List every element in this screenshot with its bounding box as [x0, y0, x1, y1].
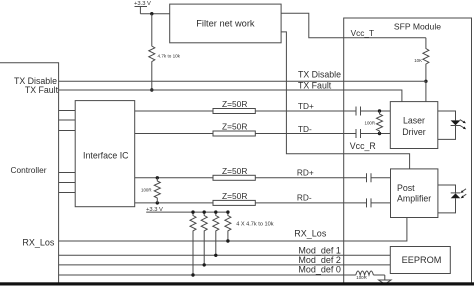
node RD+ / 100R — [156, 176, 159, 179]
resistor 100R (Mod_def0 to ground) — [356, 271, 385, 280]
svg-text:TX Fault: TX Fault — [25, 85, 59, 95]
svg-text:SFP Module: SFP Module — [394, 22, 441, 32]
svg-text:TX Fault: TX Fault — [298, 81, 332, 91]
interface IC box — [75, 101, 135, 207]
wire TD+ — [135, 110, 391, 112]
svg-text:Interface IC: Interface IC — [83, 150, 129, 160]
resistor R1 of 4x4.7k-10k — [190, 212, 196, 274]
node R3 / Mod_def1 — [214, 254, 217, 257]
laser diode D_tx — [438, 111, 466, 139]
bus wire 2 — [59, 119, 76, 121]
wire RD- — [135, 202, 391, 204]
capacitor C (TD+) — [356, 107, 361, 116]
node R2 top — [203, 210, 206, 213]
svg-text:Z=50R: Z=50R — [222, 191, 247, 201]
capacitor C (TD-) — [356, 129, 361, 138]
svg-text:Amplifier: Amplifier — [397, 193, 431, 203]
SFP module box — [344, 18, 472, 284]
filter network box U_filter — [170, 4, 281, 43]
wire +3.3V to filter network — [140, 13, 169, 15]
photodiode D_rx — [438, 185, 466, 213]
svg-text:Z=50R: Z=50R — [222, 166, 247, 176]
resistor R4 of 4x4.7k-10k — [225, 212, 231, 241]
svg-text:EEPROM: EEPROM — [402, 255, 442, 265]
svg-text:100R: 100R — [141, 188, 152, 193]
bus wire 6 — [59, 192, 76, 194]
node RD- / 100R — [156, 201, 159, 204]
resistor R_pullup 4.7k to 10k — [149, 14, 181, 90]
svg-text:Vcc_R: Vcc_R — [350, 141, 376, 151]
node junction 10K / TX Disable — [424, 80, 427, 83]
resistor Z=50R (RD+) — [213, 166, 255, 180]
wire Mod_def 2 — [59, 264, 391, 266]
wire RX_Los — [59, 218, 407, 242]
node junction pull-up / TX Fault — [150, 88, 153, 91]
controller box — [0, 63, 59, 283]
power +3.3V (bottom rail) — [146, 207, 228, 213]
ground symbol — [379, 275, 391, 284]
svg-text:RX_Los: RX_Los — [294, 228, 327, 238]
svg-text:TX Disable: TX Disable — [298, 70, 341, 80]
capacitor C (RD-) — [367, 198, 372, 207]
svg-text:100R: 100R — [365, 121, 376, 126]
wire TX Fault — [59, 90, 402, 102]
svg-text:Post: Post — [397, 183, 415, 193]
svg-text:100R: 100R — [356, 275, 367, 280]
node R3 top — [214, 210, 217, 213]
power +3.3V (top left) — [134, 1, 151, 14]
EEPROM box U_EE — [390, 247, 450, 274]
node R4 / RX_Los — [226, 239, 229, 242]
node R1 / Mod_def0 — [191, 273, 194, 276]
wire Vcc_T net — [281, 13, 426, 38]
svg-text:Vcc_T: Vcc_T — [351, 28, 375, 38]
svg-text:Filter net work: Filter net work — [196, 19, 255, 29]
resistor 100R termination (RX) — [141, 178, 160, 203]
post amplifier box U_PA — [391, 169, 438, 218]
capacitor C (RD+) — [367, 173, 372, 182]
svg-text:4.7k to 10k: 4.7k to 10k — [158, 54, 181, 59]
node TD+ / 100R — [378, 109, 381, 112]
laser driver box U_LD — [390, 102, 438, 149]
svg-text:TD+: TD+ — [298, 101, 314, 111]
bus wire 5 — [59, 182, 76, 184]
resistor Z=50R (TD-) — [213, 122, 255, 136]
node TD- / 100R — [378, 132, 381, 135]
svg-text:Mod_def 0: Mod_def 0 — [298, 264, 341, 274]
svg-text:Laser: Laser — [403, 116, 425, 126]
svg-text:4 X 4.7k to 10k: 4 X 4.7k to 10k — [236, 222, 274, 228]
wire Mod_def 1 — [59, 254, 391, 256]
wire TD- — [135, 133, 391, 135]
bottom scan bar — [0, 282, 474, 285]
node R2 / Mod_def2 — [203, 263, 206, 266]
wire TX Disable — [59, 81, 426, 101]
resistor R2 of 4x4.7k-10k — [201, 212, 207, 265]
wire Vcc_R net — [281, 32, 410, 169]
resistor Z=50R (TD+) — [213, 99, 255, 113]
bus wire 4 — [59, 172, 76, 174]
resistor 10K pull-up (in module) — [414, 38, 429, 82]
svg-text:Controller: Controller — [11, 165, 47, 175]
resistor Z=50R (RD-) — [213, 191, 255, 205]
wire Mod_def 0 — [59, 274, 356, 276]
resistor R3 of 4x4.7k-10k — [213, 212, 219, 255]
node R1 top — [191, 210, 194, 213]
bus wire 1 — [59, 110, 76, 112]
svg-text:RD+: RD+ — [297, 168, 314, 178]
resistor 100R termination (TX) — [365, 111, 383, 134]
svg-text:Z=50R: Z=50R — [222, 122, 247, 132]
svg-text:RD-: RD- — [297, 193, 312, 203]
svg-text:Driver: Driver — [402, 127, 426, 137]
bus wire 3 — [59, 130, 76, 132]
node R4 top — [226, 210, 229, 213]
wire RD+ — [135, 177, 391, 179]
svg-text:TD-: TD- — [298, 124, 312, 134]
node junction +3.3V / pull-up — [150, 12, 153, 15]
svg-text:Z=50R: Z=50R — [222, 99, 247, 109]
svg-text:10K: 10K — [414, 58, 422, 63]
svg-text:RX_Los: RX_Los — [22, 237, 55, 247]
